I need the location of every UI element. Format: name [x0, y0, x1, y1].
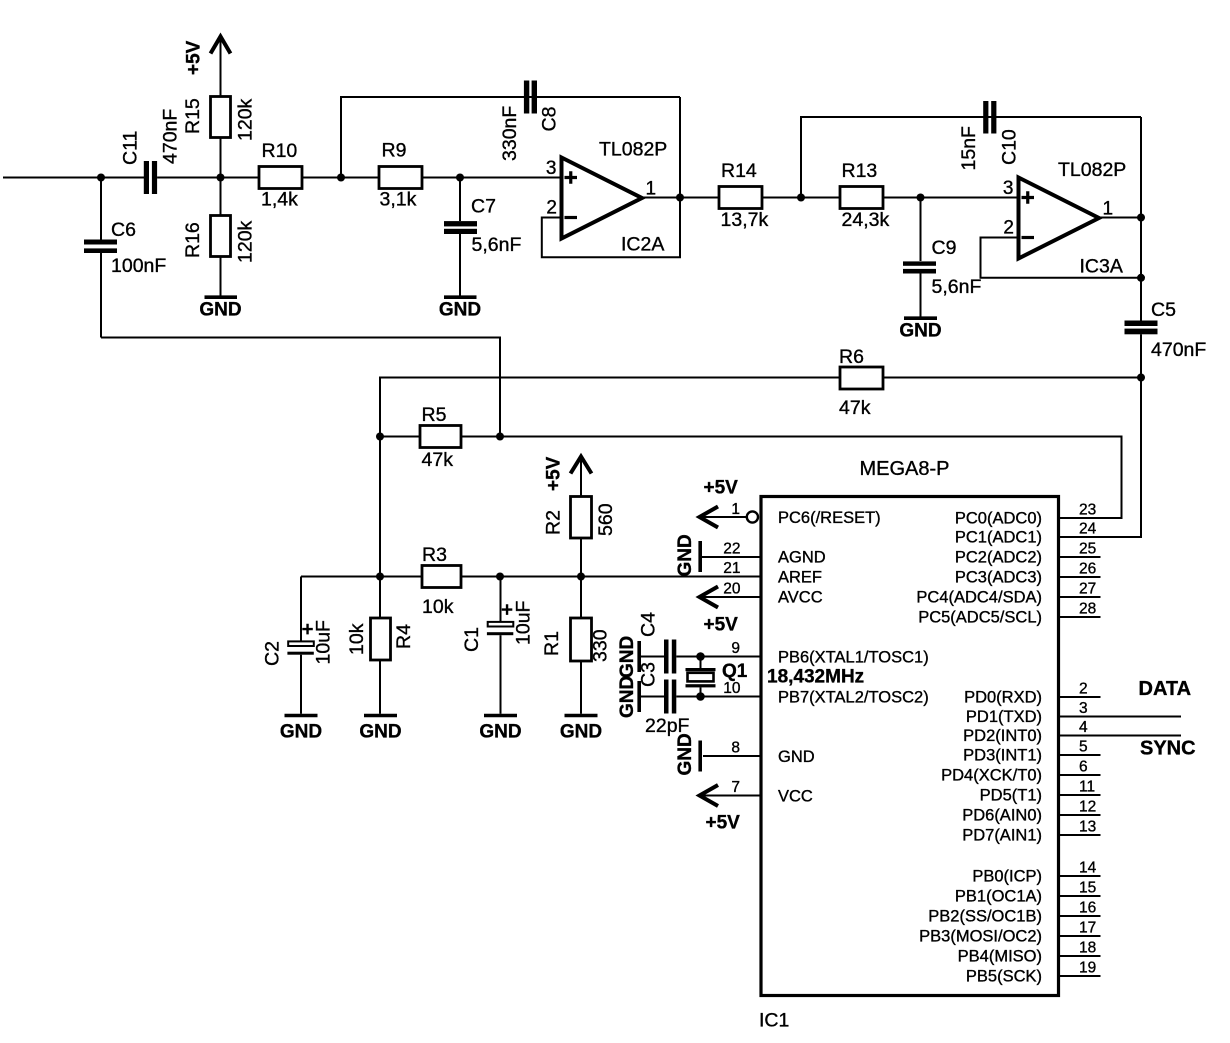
svg-text:PD7(AIN1): PD7(AIN1) [962, 827, 1042, 845]
capacitor C11 [120, 109, 182, 194]
pin 27 stub [1059, 581, 1101, 598]
svg-text:+5V: +5V [704, 478, 739, 499]
svg-text:1: 1 [1103, 199, 1114, 220]
svg-text:21: 21 [723, 560, 740, 577]
svg-text:GND: GND [675, 534, 696, 576]
svg-text:47k: 47k [422, 449, 454, 471]
svg-text:15nF: 15nF [958, 126, 980, 171]
resistor R6 [839, 346, 883, 419]
pin 17 stub [1059, 920, 1101, 937]
svg-text:100nF: 100nF [111, 255, 166, 277]
svg-text:C10: C10 [999, 129, 1021, 165]
svg-text:23: 23 [1079, 502, 1096, 519]
pin 5 stub [1059, 739, 1101, 756]
svg-text:PD5(T1): PD5(T1) [980, 787, 1042, 805]
svg-text:3: 3 [1003, 178, 1014, 199]
node R5 right [496, 433, 504, 441]
node R15/R16 [217, 174, 225, 182]
svg-text:5,6nF: 5,6nF [472, 234, 522, 256]
node C5 top [1137, 274, 1145, 282]
wire IC2A output [642, 197, 719, 199]
svg-text:16: 16 [1079, 900, 1096, 917]
svg-text:PB3(MOSI/OC2): PB3(MOSI/OC2) [919, 928, 1042, 946]
svg-text:15: 15 [1079, 880, 1096, 897]
svg-text:+5V: +5V [184, 40, 205, 75]
ground C3 [617, 676, 639, 718]
capacitor C1 polarized [461, 577, 535, 714]
pin 2 stub [1059, 681, 1101, 698]
svg-text:10k: 10k [422, 596, 454, 618]
svg-text:GND: GND [199, 300, 241, 321]
svg-text:120k: 120k [235, 98, 257, 141]
svg-text:AREF: AREF [778, 569, 822, 587]
svg-text:12: 12 [1079, 799, 1096, 816]
svg-text:560: 560 [595, 503, 617, 536]
svg-text:PB7(XTAL2/TOSC2): PB7(XTAL2/TOSC2) [778, 689, 929, 707]
node XTAL2 [696, 692, 705, 701]
svg-text:GND: GND [479, 722, 521, 743]
pin 22 AGND [702, 541, 761, 558]
wire C6 bottom to R5 column [101, 338, 500, 437]
svg-text:PB4(MISO): PB4(MISO) [958, 948, 1042, 966]
svg-text:24: 24 [1079, 521, 1097, 538]
svg-text:1: 1 [646, 179, 657, 200]
op-amp U-IC2A [546, 139, 667, 256]
node C9 tap [917, 194, 925, 202]
capacitor C4 [638, 612, 762, 674]
svg-text:C5: C5 [1151, 299, 1176, 321]
pin 14 stub [1059, 860, 1101, 877]
wire R15 to node [220, 138, 222, 178]
svg-text:+5V: +5V [544, 456, 565, 491]
pin 16 stub [1059, 900, 1101, 917]
svg-text:R4: R4 [393, 624, 415, 649]
svg-text:C8: C8 [539, 107, 561, 132]
svg-text:PD0(RXD): PD0(RXD) [964, 689, 1042, 707]
svg-text:PC1(ADC1): PC1(ADC1) [955, 529, 1042, 547]
capacitor C9 [903, 198, 981, 318]
node C7 tap [456, 174, 464, 182]
wire IC3A minus feedback box [981, 238, 1142, 278]
pin 12 stub [1059, 799, 1101, 816]
svg-text:PC3(ADC3): PC3(ADC3) [955, 569, 1042, 587]
svg-text:GND: GND [778, 748, 815, 766]
svg-text:470nF: 470nF [1151, 339, 1206, 361]
svg-text:330nF: 330nF [499, 106, 521, 161]
svg-text:330: 330 [590, 629, 612, 662]
svg-text:2: 2 [1003, 218, 1014, 239]
svg-text:5,6nF: 5,6nF [932, 276, 982, 298]
svg-text:R6: R6 [839, 346, 864, 368]
svg-text:R5: R5 [422, 404, 447, 426]
svg-text:R16: R16 [182, 222, 204, 258]
op-amp U-IC3A [1003, 159, 1126, 278]
svg-text:18: 18 [1079, 940, 1096, 957]
node R6 junction [1137, 374, 1145, 382]
svg-text:1: 1 [731, 501, 740, 518]
svg-text:6: 6 [1079, 759, 1088, 776]
node IC3A output [1137, 214, 1145, 222]
wire R9 to op-amp [422, 177, 561, 179]
svg-text:2: 2 [1079, 681, 1088, 698]
pin 25 stub [1059, 541, 1101, 558]
svg-text:PC5(ADC5/SCL): PC5(ADC5/SCL) [918, 609, 1042, 627]
wire output column lower to pin24 [1059, 334, 1141, 537]
resistor R4 [346, 577, 415, 714]
svg-text:GND: GND [617, 676, 638, 718]
ground AGND bar [675, 534, 700, 576]
svg-text:4: 4 [1079, 719, 1088, 736]
svg-text:24,3k: 24,3k [842, 209, 890, 231]
svg-text:C9: C9 [932, 237, 957, 259]
crystal Q1 [686, 657, 748, 697]
svg-text:27: 27 [1079, 581, 1096, 598]
wire R13 to op-amp [883, 197, 1018, 199]
svg-text:25: 25 [1079, 541, 1096, 558]
capacitor C5 [1125, 299, 1207, 361]
svg-text:26: 26 [1079, 561, 1096, 578]
pin 3 stub [1059, 700, 1182, 717]
wire input rail [3, 177, 144, 179]
svg-text:10uF: 10uF [513, 600, 535, 645]
ground C7 [439, 297, 481, 320]
capacitor C8 [499, 81, 561, 162]
svg-text:IC2A: IC2A [621, 234, 664, 256]
svg-text:PD4(XCK/T0): PD4(XCK/T0) [941, 767, 1042, 785]
svg-text:AVCC: AVCC [778, 589, 823, 607]
svg-text:PB0(ICP): PB0(ICP) [972, 868, 1042, 886]
pin 26 stub [1059, 561, 1101, 578]
svg-text:R13: R13 [842, 160, 878, 182]
IC1 MEGA8-P body [761, 497, 1059, 996]
svg-text:IC1: IC1 [759, 1010, 789, 1032]
node XTAL1 [696, 652, 705, 661]
pin 7 VCC [699, 779, 761, 806]
node R14/R13/feedback2 [797, 194, 805, 202]
wire output column upper [1140, 117, 1142, 321]
node R1/R2 tap [577, 573, 585, 581]
wire IC2A minus feedback box [542, 97, 680, 257]
svg-text:PB5(SCK): PB5(SCK) [966, 968, 1042, 986]
svg-text:19: 19 [1079, 960, 1096, 977]
svg-text:R3: R3 [422, 544, 447, 566]
svg-text:GND: GND [675, 733, 696, 775]
capacitor C2 polarized [262, 577, 335, 714]
svg-text:C1: C1 [461, 627, 483, 652]
svg-text:VCC: VCC [778, 788, 813, 806]
svg-text:PC2(ADC2): PC2(ADC2) [955, 549, 1042, 567]
node C1 tap [496, 573, 504, 581]
svg-text:47k: 47k [839, 397, 871, 419]
svg-text:C6: C6 [111, 219, 136, 241]
svg-text:3,1k: 3,1k [380, 189, 417, 211]
svg-text:3: 3 [546, 158, 557, 179]
svg-text:PB6(XTAL1/TOSC1): PB6(XTAL1/TOSC1) [778, 649, 929, 667]
svg-text:R1: R1 [541, 631, 563, 656]
svg-text:14: 14 [1079, 860, 1097, 877]
resistor R14 [719, 160, 768, 231]
svg-text:DATA: DATA [1139, 678, 1192, 700]
svg-text:C4: C4 [638, 612, 660, 637]
resistor R1 [541, 577, 612, 714]
svg-text:28: 28 [1079, 601, 1096, 618]
svg-text:GND: GND [560, 722, 602, 743]
capacitor C10 [958, 101, 1021, 171]
pin 13 stub [1059, 819, 1101, 836]
svg-text:PC0(ADC0): PC0(ADC0) [955, 510, 1042, 528]
svg-text:R9: R9 [382, 140, 407, 162]
ground C9 [899, 318, 941, 341]
wire left column down [379, 437, 381, 577]
svg-text:11: 11 [1079, 779, 1095, 796]
pin 15 stub [1059, 880, 1101, 897]
wire R10 to node [302, 177, 379, 179]
pin 4 stub [1059, 719, 1182, 736]
pin 24 stub [1079, 521, 1097, 538]
svg-text:TL082P: TL082P [599, 139, 667, 161]
svg-text:PC4(ADC4/SDA): PC4(ADC4/SDA) [916, 589, 1042, 607]
ground C1 [479, 716, 521, 743]
resistor R2 [543, 497, 618, 577]
svg-text:20: 20 [723, 581, 741, 598]
svg-text:C11: C11 [120, 131, 142, 165]
ground C2 [280, 716, 322, 743]
svg-text:17: 17 [1079, 920, 1096, 937]
svg-text:+5V: +5V [704, 615, 739, 636]
svg-text:PD1(TXD): PD1(TXD) [966, 708, 1042, 726]
pin 20 AVCC [699, 581, 761, 608]
pin 28 stub [1059, 601, 1101, 618]
node R10/R9/feedback [337, 174, 345, 182]
resistor R5 [420, 404, 461, 471]
pin 19 stub [1059, 960, 1101, 977]
resistor R15 [182, 97, 257, 142]
ground pin8 bar [675, 733, 700, 775]
pin 11 stub [1059, 779, 1101, 796]
node R3 left [376, 573, 384, 581]
resistor R10 [259, 140, 302, 211]
pin 6 stub [1059, 759, 1101, 776]
svg-text:GND: GND [617, 636, 638, 678]
pin 23 stub [1079, 502, 1096, 519]
svg-text:C7: C7 [471, 196, 496, 218]
node IC2A output [676, 194, 684, 202]
resistor R9 [379, 140, 422, 211]
svg-text:13: 13 [1079, 819, 1096, 836]
svg-text:Q1: Q1 [722, 661, 748, 682]
svg-text:120k: 120k [235, 220, 257, 263]
svg-text:R10: R10 [262, 140, 298, 162]
svg-text:10: 10 [723, 680, 741, 697]
svg-text:+5V: +5V [706, 813, 741, 834]
svg-text:8: 8 [731, 740, 740, 757]
svg-text:PD6(AIN0): PD6(AIN0) [962, 807, 1042, 825]
wire IC3A output [1099, 217, 1141, 219]
svg-text:IC3A: IC3A [1080, 256, 1123, 278]
svg-text:PC6(/RESET): PC6(/RESET) [778, 509, 881, 527]
svg-text:TL082P: TL082P [1058, 159, 1126, 181]
pin 18 stub [1059, 940, 1101, 957]
svg-text:GND: GND [359, 722, 401, 743]
svg-text:GND: GND [439, 300, 481, 321]
svg-text:R14: R14 [721, 160, 757, 182]
svg-text:C2: C2 [262, 641, 284, 666]
resistor R16 [182, 178, 257, 297]
capacitor C6 [84, 178, 166, 338]
ground R16 [199, 297, 241, 320]
svg-text:MEGA8-P: MEGA8-P [860, 458, 950, 480]
node input junction [97, 174, 105, 182]
svg-text:9: 9 [731, 640, 740, 657]
svg-text:3: 3 [1079, 700, 1088, 717]
svg-text:PB1(OC1A): PB1(OC1A) [955, 888, 1042, 906]
node R5 left [376, 433, 384, 441]
svg-text:470nF: 470nF [160, 109, 182, 164]
svg-text:5: 5 [1079, 739, 1088, 756]
resistor R13 [840, 160, 889, 231]
capacitor C3 [638, 662, 762, 713]
ground R4 [359, 716, 401, 743]
svg-text:AGND: AGND [778, 548, 826, 566]
svg-text:2: 2 [546, 198, 557, 219]
svg-text:GND: GND [899, 321, 941, 342]
svg-text:PD2(INT0): PD2(INT0) [963, 727, 1042, 745]
svg-text:10uF: 10uF [313, 620, 335, 665]
svg-text:SYNC: SYNC [1140, 738, 1196, 760]
wire feedback stage2 [801, 117, 1141, 198]
wire R14 to node [762, 197, 840, 199]
power +5V arrow R2 [544, 456, 592, 496]
svg-text:1,4k: 1,4k [261, 189, 298, 211]
svg-text:R2: R2 [543, 510, 565, 535]
wire C11 to node [157, 177, 259, 179]
svg-text:13,7k: 13,7k [721, 209, 769, 231]
svg-text:18,432MHz: 18,432MHz [767, 667, 864, 688]
ground R1 [560, 716, 602, 743]
resistor R3 [422, 544, 461, 618]
capacitor C7 [444, 178, 521, 297]
wire R6 rail [380, 378, 1141, 437]
wire feedback stage1 up [341, 97, 680, 178]
ground C4 [617, 636, 639, 678]
svg-text:7: 7 [731, 779, 740, 796]
pin 8 GND [703, 740, 761, 757]
svg-text:R15: R15 [182, 98, 204, 134]
svg-text:22: 22 [723, 541, 740, 558]
wire R5 rail [380, 437, 1122, 519]
svg-text:GND: GND [280, 722, 322, 743]
svg-text:PB2(SS/OC1B): PB2(SS/OC1B) [928, 908, 1042, 926]
svg-text:10k: 10k [346, 623, 368, 655]
wire AREF rail [301, 576, 761, 578]
pin 1 PC6(/RESET) with reset circle [699, 501, 758, 528]
power +5V arrow R15 [184, 37, 231, 97]
svg-text:PD3(INT1): PD3(INT1) [963, 747, 1042, 765]
